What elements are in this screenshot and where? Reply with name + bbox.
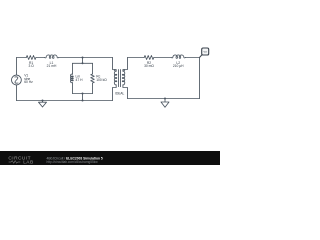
wire left vertical bottom (bottom wire to source) <box>16 85 18 101</box>
footer logo waveform <box>9 161 21 164</box>
footer bar <box>0 151 220 165</box>
wire shunt left vertical upper <box>72 63 74 74</box>
svg-text:http://circuitlab.com/c5lcuham: http://circuitlab.com/c5lcuhamg55kw <box>47 160 99 164</box>
wire R1 to L1 <box>36 57 45 59</box>
wire bottom right loop <box>128 98 200 100</box>
wire left vertical top (source to top rail) <box>16 58 18 76</box>
svg-text:100 kΩ: 100 kΩ <box>96 78 107 82</box>
voltage source V1 <box>12 75 22 85</box>
transformer T1 secondary lead bottom <box>123 85 128 99</box>
svg-text:3 Ω: 3 Ω <box>28 64 34 68</box>
wire top right (transformer to R2) <box>128 57 145 59</box>
transformer T1 secondary winding <box>122 71 125 85</box>
component labels <box>28 61 184 96</box>
node bottom wire stub <box>82 100 84 102</box>
node shunt rail top <box>82 62 84 64</box>
wire shunt right vertical lower <box>92 83 94 94</box>
svg-text:21 mH: 21 mH <box>47 64 57 68</box>
svg-text:210 µH: 210 µH <box>173 64 184 68</box>
transformer T1 primary lead top <box>113 58 117 72</box>
resistor R1 <box>26 56 36 60</box>
svg-text:60 Hz: 60 Hz <box>24 80 33 84</box>
inductor L2 <box>171 55 185 58</box>
wire shunt left vertical lower <box>72 83 74 94</box>
wire L2 to right corner <box>185 57 199 59</box>
svg-text:IDEAL: IDEAL <box>115 92 124 96</box>
voltage source V1 sine glyph <box>13 76 20 84</box>
wire L1 to transformer <box>59 57 113 59</box>
wire bottom left loop <box>17 100 113 102</box>
node shunt rail bottom <box>82 93 84 95</box>
svg-text:vo: vo <box>204 50 208 54</box>
inductor Lm <box>70 74 73 83</box>
node top stub junction <box>82 57 84 59</box>
wire shunt top rail <box>73 62 93 64</box>
transformer T1 primary winding <box>114 71 117 85</box>
wire stub shunt rail to bottom wire <box>82 94 84 101</box>
svg-text:30 mΩ: 30 mΩ <box>144 64 154 68</box>
node ground right <box>164 98 166 100</box>
transformer T1 secondary lead top <box>123 58 128 72</box>
resistor Rc <box>91 74 95 83</box>
ground GND2 <box>161 99 169 108</box>
probe vo <box>200 48 209 58</box>
transformer T1 primary lead bottom <box>113 85 117 101</box>
wire shunt bottom rail <box>73 93 93 95</box>
wire stub top junction to shunt rail <box>82 58 84 64</box>
transformer T1 core <box>119 70 121 87</box>
wire shunt right vertical upper <box>92 63 94 74</box>
wire R2 to L2 <box>154 57 172 59</box>
junction dots <box>42 57 167 102</box>
wire right vertical <box>199 58 201 99</box>
svg-text:47 H: 47 H <box>76 78 84 82</box>
svg-text:LAB: LAB <box>23 160 33 165</box>
node ground left <box>42 100 44 102</box>
transformer phase dot primary <box>114 69 116 71</box>
ground GND1 <box>39 101 47 108</box>
inductor L1 <box>45 55 59 58</box>
transformer phase dot secondary <box>124 69 126 71</box>
resistor R2 <box>144 56 154 60</box>
wire top left (to R1) <box>17 57 27 59</box>
